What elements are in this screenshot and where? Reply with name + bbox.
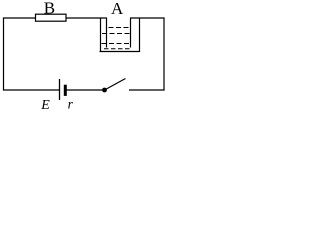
battery: short thick plate xyxy=(64,85,67,96)
svg-text:B: B xyxy=(44,0,55,18)
wire: bottom from left corner to battery xyxy=(3,89,60,91)
wire: top-left horizontal from corner to resistor B xyxy=(3,17,36,19)
wire: switch right contact to bottom-right corner xyxy=(129,89,165,91)
battery: long plate (E) xyxy=(59,79,61,100)
vessel A: left wall xyxy=(100,18,102,53)
cell A: right electrode xyxy=(130,18,132,48)
vessel A: bottom xyxy=(100,51,140,53)
wire: battery to switch pivot xyxy=(67,89,103,91)
vessel A: right wall xyxy=(139,18,141,53)
liquid dashed line 4 xyxy=(104,48,130,50)
wire: resistor B to cell A left electrode xyxy=(66,17,107,19)
cell A: left electrode xyxy=(106,18,108,48)
wire: cell A right electrode to top-right corner xyxy=(130,17,165,19)
liquid dashed line 2 xyxy=(102,33,130,35)
liquid dashed line 3 xyxy=(102,43,132,45)
switch: pivot dot xyxy=(102,88,107,93)
svg-text:A: A xyxy=(111,0,124,18)
wire: right side vertical xyxy=(163,18,165,91)
liquid surface dashed line 1 xyxy=(109,27,131,29)
wire: left side vertical xyxy=(3,18,5,91)
switch: lever (open blade) xyxy=(105,79,126,91)
resistor B xyxy=(36,14,67,21)
svg-text:E: E xyxy=(40,98,50,111)
svg-text:r: r xyxy=(68,97,74,111)
